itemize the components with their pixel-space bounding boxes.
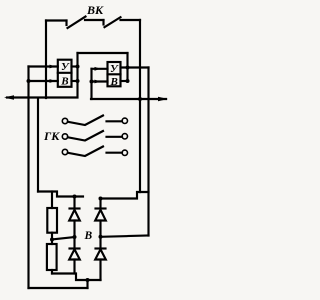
node dot bottom — [86, 278, 90, 282]
wire input vertical left — [27, 67, 29, 289]
switch VK contact tick 2 — [102, 20, 104, 25]
switch VK blade 2 — [105, 17, 121, 27]
amplifier block U1 (left box) — [58, 60, 72, 87]
switch VK contact tick 1 — [65, 21, 67, 26]
wire left vertical from VK — [45, 21, 47, 99]
wire middle left to diodes — [52, 237, 75, 240]
wire rectifier top right — [100, 192, 149, 199]
svg-text:У: У — [110, 63, 119, 75]
node dot output bottom right — [126, 79, 130, 83]
node dot output bottom left — [76, 79, 80, 83]
diode D2 bar — [70, 247, 80, 249]
arrowhead input bottom right — [95, 80, 101, 84]
divider right box — [108, 73, 121, 75]
arrowhead input top left — [50, 65, 56, 69]
wire main line left with corner up — [7, 53, 78, 98]
resistor R2 — [47, 244, 57, 270]
wire rectifier top left step — [38, 192, 83, 197]
diode D4 triangle — [95, 249, 106, 259]
diode D3 lead top — [99, 199, 101, 209]
svg-text:В: В — [110, 76, 118, 88]
contact GK 2 right lead — [107, 136, 123, 138]
wire middle right from diodes — [101, 236, 149, 237]
wire top segment 2 — [85, 19, 104, 21]
wire output bottom right box — [121, 80, 128, 82]
contact GK 3 right circle — [122, 150, 127, 155]
arrowhead input top right — [95, 67, 101, 71]
wire output stub bottom left box — [72, 80, 78, 82]
wire top segment 3 — [121, 19, 141, 21]
wire output top right box to right — [121, 66, 149, 68]
wire input bottom right box — [92, 80, 108, 82]
wire right vertical from VK — [139, 20, 141, 192]
node dot input bottom right — [90, 80, 94, 84]
contact GK 3 blade — [68, 147, 103, 157]
resistor R1 top lead — [51, 192, 53, 209]
diode D1 triangle — [69, 210, 80, 221]
node dot input bottom left — [27, 79, 31, 83]
contact GK 2 right circle — [122, 134, 127, 139]
wire output stub top left box — [72, 65, 78, 67]
svg-text:В: В — [60, 75, 68, 87]
wire between resistors — [51, 233, 53, 244]
diode D3 triangle — [95, 210, 106, 221]
contact GK 3 right lead — [107, 152, 123, 154]
node dot resistors middle — [50, 238, 54, 242]
diode D3 bar — [96, 207, 106, 209]
contact GK 1 right circle — [122, 118, 127, 123]
diode D2 lead bottom — [73, 260, 75, 274]
resistor R2 bottom lead — [51, 270, 53, 274]
wire top segment 1 — [46, 19, 67, 21]
diode D3 lead bottom — [99, 221, 101, 249]
node dot main right — [138, 97, 142, 101]
wire bottom drop — [86, 280, 88, 288]
contact GK 1 blade — [68, 116, 103, 126]
switch VK blade 1 — [68, 17, 86, 29]
contact GK 2 left circle — [62, 134, 67, 139]
diode D1 bar — [70, 207, 80, 209]
svg-text:ВК: ВК — [86, 3, 104, 17]
contact GK 2 blade — [68, 131, 103, 141]
wire bottom row 1 — [52, 274, 101, 281]
diode D2 triangle — [69, 249, 80, 259]
divider left box — [58, 72, 72, 74]
svg-text:ГК: ГК — [43, 129, 60, 143]
node dot rect top right — [99, 197, 103, 201]
wire input bottom left box — [29, 80, 58, 82]
node dot output top right — [126, 66, 130, 70]
wire bottom row 2 — [29, 287, 88, 289]
wire output vertical right box — [126, 53, 128, 81]
wire input top right box — [92, 68, 108, 70]
wire input top left box — [29, 65, 58, 67]
node dot diode middle left — [73, 235, 77, 239]
arrowhead input bottom left — [50, 79, 56, 83]
contact GK 1 right lead — [107, 120, 123, 122]
contact GK 1 left circle — [62, 118, 67, 123]
contact GK 3 left circle — [62, 149, 67, 154]
diode D4 bar — [96, 247, 106, 249]
arrow left — [4, 95, 14, 100]
svg-text:В: В — [84, 230, 93, 242]
node dot diode middle right — [99, 235, 103, 239]
node dot output top left — [76, 65, 80, 69]
wire feedback top horizontal — [78, 52, 128, 54]
wire main line right — [91, 98, 166, 100]
node GK left branch vertical — [37, 98, 39, 192]
amplifier block U2 (right box) — [108, 62, 121, 86]
diode D1 lead bottom — [73, 221, 75, 249]
diode D1 lead top — [73, 197, 75, 209]
arrow right — [158, 97, 168, 102]
diode D4 lead bottom — [99, 260, 101, 281]
resistor R1 — [47, 208, 57, 233]
wire right through vertical — [147, 68, 149, 236]
node dot rect top left — [73, 195, 77, 199]
svg-text:У: У — [61, 61, 70, 73]
wire input vertical right pair — [90, 69, 92, 99]
